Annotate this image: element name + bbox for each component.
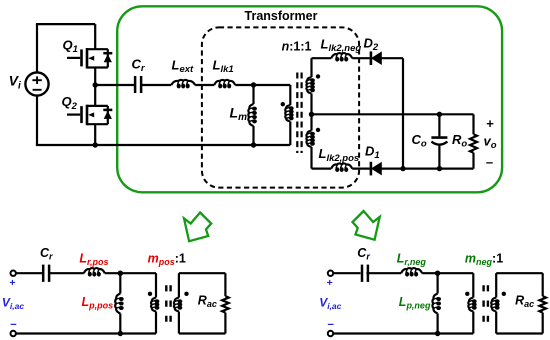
inductor Lr,pos: [84, 268, 105, 273]
dashed transformer-model box: [202, 27, 359, 187]
wire: [16, 272, 43, 274]
node bottom: [435, 331, 440, 336]
inductor Lext: [171, 80, 195, 85]
secondary phase dot: [502, 292, 506, 296]
wire top rail: [36, 23, 95, 25]
inductor Lp,pos: [119, 273, 121, 293]
transformer core: [296, 73, 298, 154]
voltage source Vi: [25, 72, 48, 95]
inductor Lm: [252, 85, 254, 104]
wire mid rail: [95, 84, 135, 86]
secondary top phase dot: [316, 74, 320, 78]
wire: [422, 272, 473, 274]
svg-text:–: –: [486, 154, 493, 169]
wire diode cathode vertical: [402, 58, 404, 168]
wire: [352, 168, 370, 170]
svg-text:Transformer: Transformer: [245, 9, 318, 23]
terminal -: [328, 331, 333, 336]
resistor Rac: [224, 273, 226, 296]
diode D1: [370, 162, 373, 176]
inductor Llk1: [214, 80, 235, 85]
transistor Q2: [67, 113, 80, 115]
wire: [310, 94, 312, 131]
transformer secondary top winding: [310, 58, 312, 77]
svg-text:+: +: [486, 116, 494, 131]
wire: [312, 168, 332, 170]
capacitor Cr: [361, 265, 364, 282]
equivalent transformer core: [482, 285, 484, 322]
wire: [312, 57, 332, 59]
node Llk1/Lm junction: [251, 82, 256, 87]
capacitor Cr: [42, 265, 45, 282]
terminal -: [11, 331, 16, 336]
wire: [49, 272, 84, 274]
svg-text:–: –: [327, 319, 334, 331]
wire bottom rail: [36, 144, 290, 146]
svg-text:–: –: [10, 319, 17, 331]
wire: [366, 272, 401, 274]
wire: [381, 57, 403, 59]
resistor Ro: [472, 114, 474, 134]
inductor Llk2,pos: [331, 163, 352, 168]
wire bottom rail: [16, 332, 156, 334]
svg-text:+: +: [9, 277, 15, 289]
node bottom: [118, 331, 123, 336]
equivalent transformer primary: [155, 273, 157, 297]
terminal +: [328, 271, 333, 276]
wire center-tap rail: [312, 113, 474, 115]
wire Q2 source: [94, 124, 96, 145]
secondary bottom phase dot: [316, 128, 320, 132]
diode D2: [370, 51, 373, 65]
terminal +: [11, 271, 16, 276]
primary phase dot: [465, 292, 469, 296]
wire: [36, 24, 38, 72]
arrow left: [184, 213, 211, 242]
wire output bottom rail: [381, 168, 473, 170]
resistor Rac: [542, 273, 544, 296]
wire: [141, 84, 171, 86]
svg-text:+: +: [327, 277, 333, 289]
wire secondary loop bottom: [179, 332, 226, 334]
wire Q1 source: [94, 68, 96, 86]
wire: [334, 272, 361, 274]
node center tap: [309, 112, 314, 117]
primary phase dot: [281, 102, 285, 106]
node: half-bridge midpoint: [93, 82, 98, 87]
node top: [435, 271, 440, 276]
wire: [105, 272, 156, 274]
wire secondary loop top: [496, 272, 543, 274]
wire: [352, 57, 370, 59]
wire secondary loop bottom: [496, 332, 543, 334]
arrow right: [353, 211, 380, 240]
transformer enclosure box: [117, 6, 502, 192]
equivalent transformer core: [165, 285, 167, 322]
node Lm bottom: [251, 142, 256, 147]
wire: [235, 84, 290, 86]
node: Q2 source / bottom rail: [93, 142, 98, 147]
equivalent transformer primary: [472, 273, 474, 297]
inductor Lr,neg: [401, 268, 422, 273]
inductor Lp,neg: [437, 273, 439, 293]
equivalent transformer secondary: [178, 273, 180, 297]
transformer primary winding: [289, 85, 291, 105]
transistor Q1: [67, 57, 80, 59]
wire Q2 drain: [94, 85, 96, 106]
wire bottom rail: [334, 332, 474, 334]
inductor Llk2,neg: [331, 53, 352, 58]
wire: [36, 96, 38, 146]
node diode junction: [400, 166, 405, 171]
primary phase dot: [148, 292, 152, 296]
secondary phase dot: [184, 292, 188, 296]
transformer secondary bottom winding: [306, 131, 311, 148]
svg-text:n:1:1: n:1:1: [282, 40, 312, 54]
wire secondary loop top: [179, 272, 226, 274]
equivalent transformer secondary: [495, 273, 497, 297]
wire: [310, 147, 312, 169]
wire Q1 drain: [94, 24, 96, 49]
capacitor Cr: [134, 76, 137, 93]
capacitor Co: [437, 112, 442, 117]
node top: [118, 271, 123, 276]
wire: [195, 84, 214, 86]
